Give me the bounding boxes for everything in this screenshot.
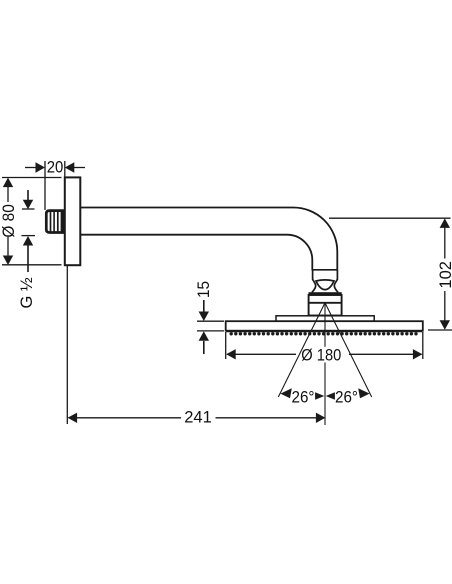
svg-text:G ½: G ½ [18,277,36,308]
svg-text:Ø 180: Ø 180 [301,347,341,365]
svg-text:15: 15 [195,281,213,298]
svg-text:26°: 26° [292,389,315,407]
svg-text:241: 241 [184,409,212,427]
svg-text:Ø 80: Ø 80 [0,204,18,237]
svg-text:26°: 26° [335,389,358,407]
svg-text:20: 20 [47,158,64,176]
svg-text:102: 102 [437,261,452,289]
